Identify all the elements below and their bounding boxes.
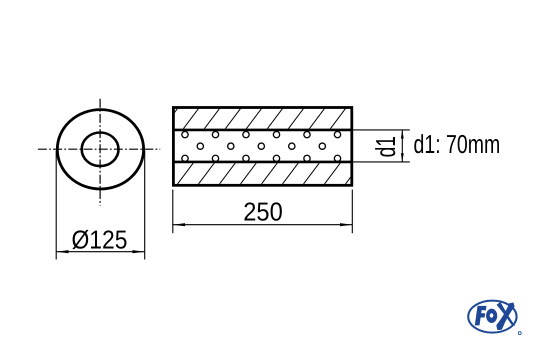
dimension d1 top extension line (353, 129, 410, 131)
dimension Ø125 left extension line (55, 151, 57, 260)
side view perforated tube top line (173, 129, 351, 132)
svg-text:Ø125: Ø125 (72, 225, 128, 255)
logo letter X stroke 2 (496, 303, 514, 331)
dimension 250 left extension line (172, 190, 174, 234)
dimension d1 bottom extension line (353, 161, 410, 163)
dimension d1 bottom arrowhead (401, 153, 404, 162)
hatching of bottom shell band (155, 161, 363, 186)
perforation holes top row (182, 131, 341, 137)
logo registered mark (518, 332, 521, 335)
dimension Ø125 right extension line (144, 151, 146, 260)
horizontal centerline (38, 148, 160, 150)
dimension 250 dimension line (173, 224, 352, 226)
svg-text:250: 250 (243, 196, 282, 226)
dimension 250 left arrowhead (173, 223, 185, 226)
dimension 250 right arrowhead (340, 223, 352, 226)
side view shell rectangle (173, 108, 351, 186)
side view perforated tube bottom line (173, 161, 351, 164)
svg-text:d1: 70mm: d1: 70mm (414, 129, 501, 159)
logo letter O (486, 309, 497, 323)
FOX logo (468, 301, 521, 335)
front view outer circle (Ø125 shell) (57, 110, 143, 189)
dimension Ø125 right arrowhead (132, 250, 144, 253)
dimension d1 top arrowhead (401, 130, 404, 139)
dimension Ø125 dimension line (56, 251, 145, 253)
logo letter X stroke 1 (497, 302, 516, 326)
logo ellipse (468, 301, 516, 333)
front view inner circle (d1 bore) (82, 133, 119, 167)
dimension d1 dimension line (401, 130, 403, 162)
svg-text:d1: d1 (370, 136, 401, 157)
perforation holes bottom row (182, 155, 341, 161)
hatching of top shell band (161, 106, 368, 130)
dimension Ø125 left arrowhead (56, 250, 68, 253)
dimension 250 right extension line (351, 190, 353, 234)
vertical centerline (99, 99, 101, 206)
logo letter F (475, 306, 487, 326)
perforation holes middle row (197, 143, 325, 149)
